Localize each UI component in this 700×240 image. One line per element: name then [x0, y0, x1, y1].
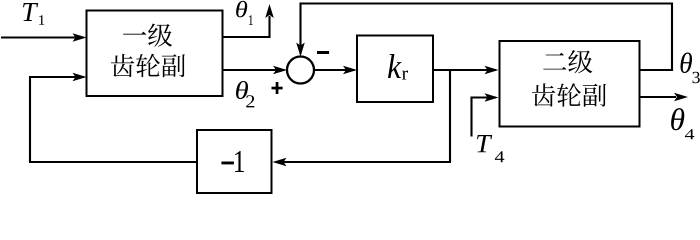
- block G1: first-stage gear pair (一级齿轮副): [87, 11, 223, 97]
- wire: summing junction to kr block: [314, 66, 357, 75]
- wire: input T1 into G1: [1, 33, 87, 42]
- block G2: second-stage gear pair (二级齿轮副): [500, 41, 640, 127]
- block N1: inverter gain -1: [197, 130, 272, 193]
- label T4: [477, 135, 504, 162]
- wire: kr output into G2 (with junction tap): [433, 66, 499, 75]
- wire: tap down from kr output to -1 block input: [273, 70, 451, 166]
- label theta2: [236, 81, 254, 107]
- wire: theta1 output of G1, up arrow: [223, 4, 274, 37]
- label theta4: [671, 108, 694, 139]
- block kr: gain k_r: [357, 36, 433, 103]
- wire: -1 output left, up, into G1 second input: [30, 73, 197, 162]
- label k_r: [388, 54, 401, 78]
- wire: feedback theta3 from G2 right, up over the top, down into summing junction: [296, 4, 672, 71]
- label T1: [23, 3, 45, 25]
- wire: input T4 up and into G2: [472, 93, 499, 136]
- label theta1: [236, 1, 253, 25]
- label minus at summing junction: [317, 51, 329, 54]
- summing junction S1: [287, 57, 314, 84]
- wire: theta4 output of G2: [640, 93, 689, 102]
- label plus at summing junction: [272, 82, 283, 94]
- label theta3: [681, 53, 700, 84]
- wire: theta2 output of G1 into summing junction: [223, 66, 288, 75]
- label -1: [221, 162, 234, 165]
